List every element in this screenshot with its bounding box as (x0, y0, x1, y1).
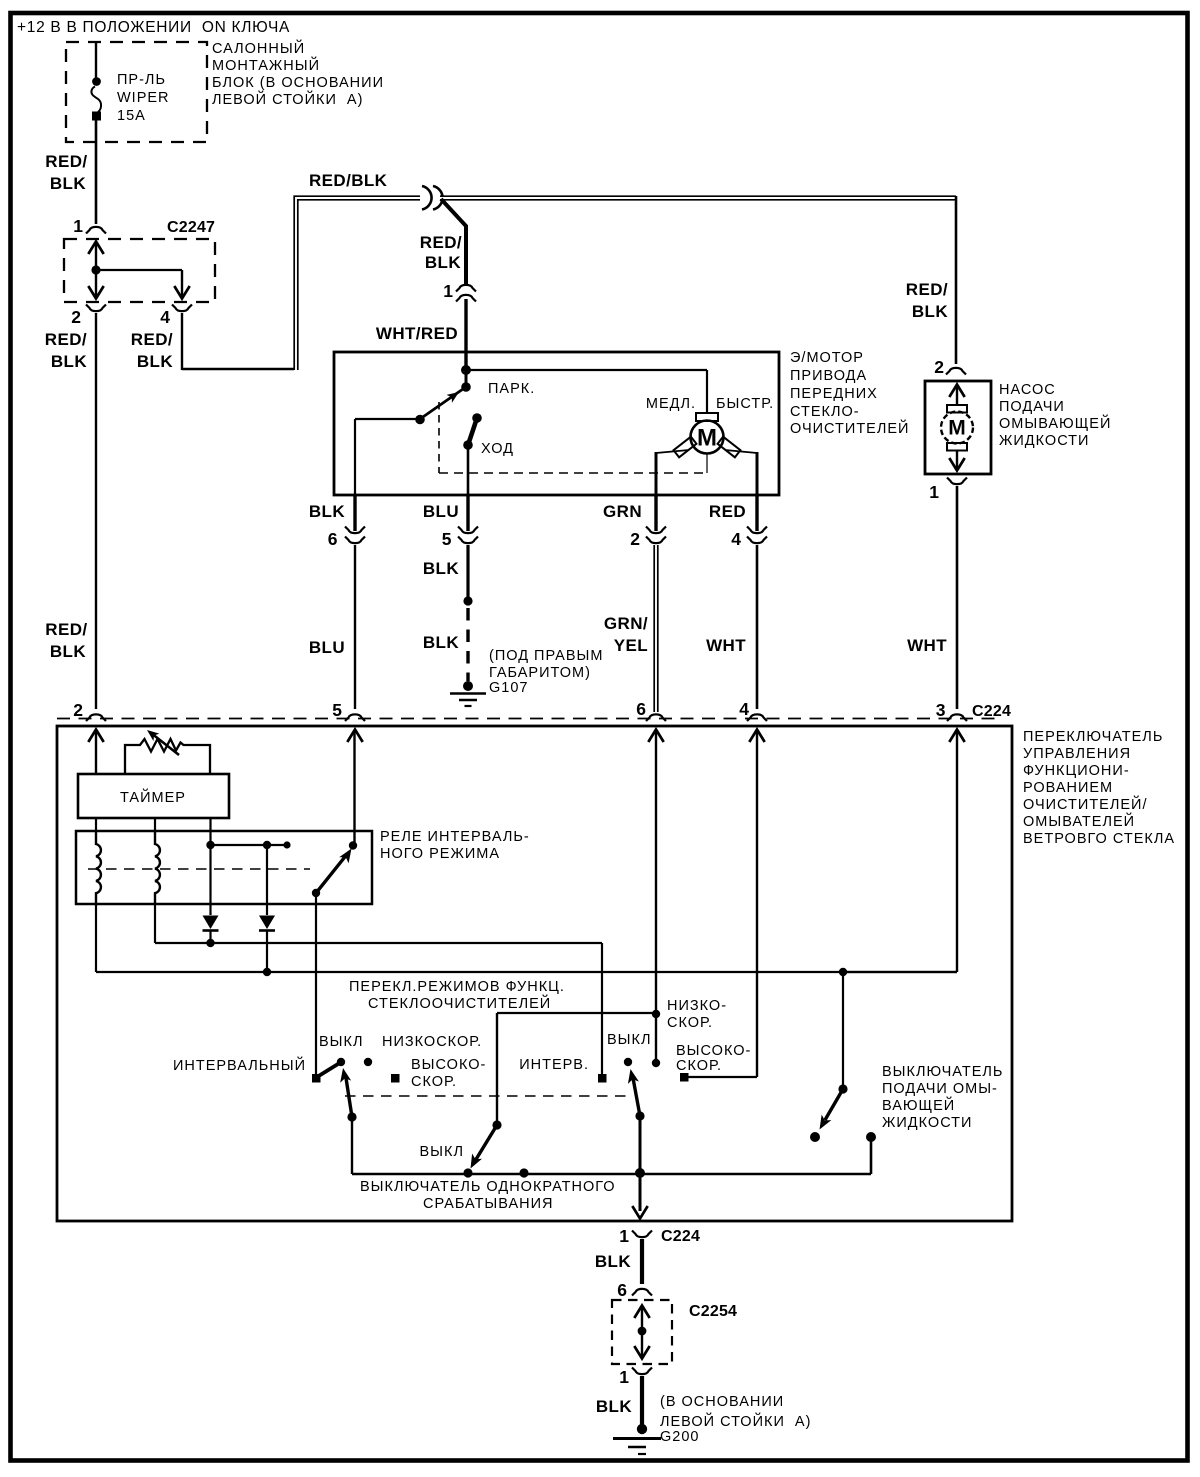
svg-text:(ПОД ПРАВЫМ: (ПОД ПРАВЫМ (489, 648, 603, 664)
svg-text:BLK: BLK (137, 352, 173, 371)
svg-text:ПР-ЛЬ: ПР-ЛЬ (117, 72, 166, 88)
svg-text:4: 4 (731, 529, 741, 549)
svg-text:RED/: RED/ (906, 280, 948, 299)
svg-text:RED/: RED/ (420, 233, 462, 252)
svg-text:ВЫСОКО-: ВЫСОКО- (676, 1043, 751, 1059)
svg-text:6: 6 (617, 1280, 627, 1300)
svg-text:4: 4 (739, 699, 749, 719)
svg-text:GRN/: GRN/ (604, 614, 648, 633)
svg-text:G107: G107 (489, 680, 528, 696)
svg-text:ВАЮЩЕЙ: ВАЮЩЕЙ (882, 1096, 955, 1114)
svg-text:ОЧИСТИТЕЛЕЙ/: ОЧИСТИТЕЛЕЙ/ (1023, 795, 1147, 813)
svg-text:БЫСТР.: БЫСТР. (716, 396, 774, 412)
svg-text:ТАЙМЕР: ТАЙМЕР (120, 788, 186, 806)
svg-text:3: 3 (936, 700, 946, 720)
svg-text:ОЧИСТИТЕЛЕЙ: ОЧИСТИТЕЛЕЙ (790, 419, 909, 437)
svg-text:ПЕРЕДНИХ: ПЕРЕДНИХ (790, 386, 878, 402)
svg-text:BLK: BLK (595, 1252, 631, 1271)
svg-text:ФУНКЦИОНИ-: ФУНКЦИОНИ- (1023, 763, 1130, 779)
svg-text:BLU: BLU (309, 638, 345, 657)
svg-text:ВЫКЛ: ВЫКЛ (319, 1034, 363, 1050)
svg-text:ВЫСОКО-: ВЫСОКО- (411, 1057, 486, 1073)
svg-text:СТЕКЛООЧИСТИТЕЛЕЙ: СТЕКЛООЧИСТИТЕЛЕЙ (368, 994, 551, 1012)
svg-text:5: 5 (442, 529, 452, 549)
svg-text:5: 5 (332, 700, 342, 720)
svg-text:4: 4 (160, 307, 170, 327)
svg-text:2: 2 (71, 307, 81, 327)
svg-text:M: M (697, 425, 717, 452)
svg-text:1: 1 (619, 1367, 629, 1387)
svg-text:Э/МОТОР: Э/МОТОР (790, 350, 864, 366)
svg-text:2: 2 (934, 357, 944, 377)
svg-text:ЖИДКОСТИ: ЖИДКОСТИ (882, 1115, 972, 1131)
svg-text:BLK: BLK (423, 559, 459, 578)
svg-text:1: 1 (929, 482, 939, 502)
svg-text:УПРАВЛЕНИЯ: УПРАВЛЕНИЯ (1023, 746, 1131, 762)
svg-text:НОГО РЕЖИМА: НОГО РЕЖИМА (380, 846, 500, 862)
svg-text:ХОД: ХОД (481, 441, 514, 457)
svg-text:МОНТАЖНЫЙ: МОНТАЖНЫЙ (212, 56, 320, 74)
svg-text:СКОР.: СКОР. (667, 1015, 713, 1031)
svg-text:C224: C224 (972, 703, 1011, 720)
svg-text:RED/: RED/ (45, 330, 87, 349)
svg-text:ОМЫВАТЕЛЕЙ: ОМЫВАТЕЛЕЙ (1023, 812, 1135, 830)
svg-text:ВЫКЛЮЧАТЕЛЬ: ВЫКЛЮЧАТЕЛЬ (882, 1064, 1003, 1080)
svg-text:C224: C224 (661, 1228, 700, 1245)
svg-text:1: 1 (619, 1226, 629, 1246)
svg-text:ЛЕВОЙ СТОЙКИ А): ЛЕВОЙ СТОЙКИ А) (212, 90, 363, 108)
svg-text:ЖИДКОСТИ: ЖИДКОСТИ (999, 433, 1089, 449)
svg-text:C2247: C2247 (167, 219, 215, 236)
svg-text:РОВАНИЕМ: РОВАНИЕМ (1023, 780, 1113, 796)
svg-text:ПОДАЧИ ОМЫ-: ПОДАЧИ ОМЫ- (882, 1081, 998, 1097)
svg-text:ВЫКЛ: ВЫКЛ (420, 1144, 464, 1160)
svg-text:СТЕКЛО-: СТЕКЛО- (790, 404, 860, 420)
svg-text:СКОР.: СКОР. (411, 1074, 457, 1090)
svg-text:BLK: BLK (912, 302, 948, 321)
svg-text:C2254: C2254 (689, 1303, 737, 1320)
svg-text:ОМЫВАЮЩЕЙ: ОМЫВАЮЩЕЙ (999, 414, 1111, 432)
svg-text:НАСОС: НАСОС (999, 382, 1056, 398)
svg-text:WIPER: WIPER (117, 90, 170, 106)
svg-text:BLK: BLK (423, 633, 459, 652)
svg-text:САЛОННЫЙ: САЛОННЫЙ (212, 39, 305, 57)
svg-text:6: 6 (636, 699, 646, 719)
svg-text:RED/: RED/ (45, 620, 87, 639)
svg-text:BLK: BLK (50, 174, 86, 193)
svg-text:ВЫКЛЮЧАТЕЛЬ ОДНОКРАТНОГО: ВЫКЛЮЧАТЕЛЬ ОДНОКРАТНОГО (360, 1179, 616, 1195)
svg-text:15A: 15A (117, 108, 146, 124)
svg-text:1: 1 (443, 281, 453, 301)
svg-text:1: 1 (73, 216, 83, 236)
svg-text:2: 2 (73, 700, 83, 720)
svg-text:RED/: RED/ (45, 152, 87, 171)
svg-text:WHT: WHT (907, 636, 947, 655)
svg-text:НИЗКОСКОР.: НИЗКОСКОР. (382, 1034, 482, 1050)
svg-text:G200: G200 (660, 1429, 699, 1445)
svg-text:BLK: BLK (309, 502, 345, 521)
svg-text:СКОР.: СКОР. (676, 1058, 722, 1074)
svg-text:ИНТЕРВ.: ИНТЕРВ. (519, 1057, 589, 1073)
svg-text:WHT/RED: WHT/RED (376, 324, 458, 343)
svg-text:RED/BLK: RED/BLK (309, 171, 388, 190)
svg-text:ПЕРЕКЛ.РЕЖИМОВ ФУНКЦ.: ПЕРЕКЛ.РЕЖИМОВ ФУНКЦ. (349, 979, 565, 995)
svg-text:ГАБАРИТОМ): ГАБАРИТОМ) (489, 665, 591, 681)
svg-text:ЛЕВОЙ СТОЙКИ А): ЛЕВОЙ СТОЙКИ А) (660, 1412, 811, 1430)
svg-text:ИНТЕРВАЛЬНЫЙ: ИНТЕРВАЛЬНЫЙ (173, 1056, 306, 1074)
svg-text:2: 2 (630, 529, 640, 549)
svg-text:+12 В В ПОЛОЖЕНИИ ON КЛЮЧА: +12 В В ПОЛОЖЕНИИ ON КЛЮЧА (17, 19, 290, 36)
svg-text:BLK: BLK (425, 253, 461, 272)
svg-text:BLK: BLK (50, 642, 86, 661)
svg-text:ПРИВОДА: ПРИВОДА (790, 368, 867, 384)
svg-text:ПЕРЕКЛЮЧАТЕЛЬ: ПЕРЕКЛЮЧАТЕЛЬ (1023, 729, 1163, 745)
svg-text:RED/: RED/ (131, 330, 173, 349)
svg-text:GRN: GRN (603, 502, 642, 521)
svg-text:M: M (948, 417, 966, 440)
svg-text:МЕДЛ.: МЕДЛ. (646, 396, 696, 412)
svg-text:БЛОК (В ОСНОВАНИИ: БЛОК (В ОСНОВАНИИ (212, 75, 384, 91)
svg-text:YEL: YEL (614, 636, 648, 655)
svg-text:НИЗКО-: НИЗКО- (667, 998, 727, 1014)
svg-text:BLU: BLU (423, 502, 459, 521)
svg-text:6: 6 (328, 529, 338, 549)
svg-text:ПОДАЧИ: ПОДАЧИ (999, 399, 1065, 415)
svg-text:ВЫКЛ: ВЫКЛ (607, 1032, 651, 1048)
svg-text:BLK: BLK (51, 352, 87, 371)
svg-text:WHT: WHT (706, 636, 746, 655)
svg-text:ПАРК.: ПАРК. (488, 381, 535, 397)
svg-text:RED: RED (709, 502, 746, 521)
svg-text:BLK: BLK (596, 1397, 632, 1416)
svg-text:(В ОСНОВАНИИ: (В ОСНОВАНИИ (660, 1394, 784, 1410)
svg-text:ВЕТРОВГО СТЕКЛА: ВЕТРОВГО СТЕКЛА (1023, 831, 1175, 847)
svg-text:СРАБАТЫВАНИЯ: СРАБАТЫВАНИЯ (423, 1196, 554, 1212)
svg-text:РЕЛЕ ИНТЕРВАЛЬ-: РЕЛЕ ИНТЕРВАЛЬ- (380, 829, 530, 845)
